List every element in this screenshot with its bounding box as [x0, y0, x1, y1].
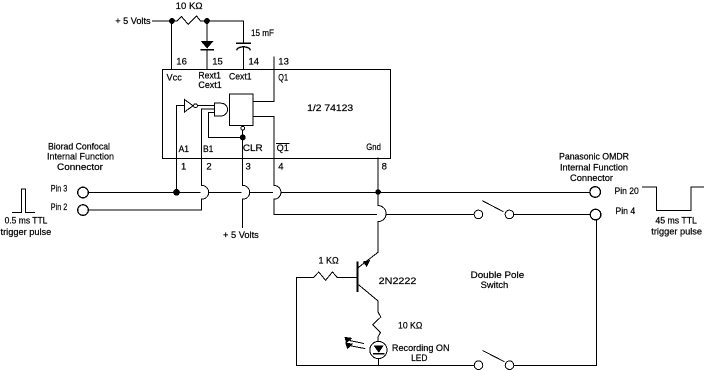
svg-text:Q1: Q1	[278, 72, 288, 83]
svg-text:8: 8	[382, 161, 387, 172]
wire pin3 net segment b	[210, 191, 242, 193]
svg-text:trigger pulse: trigger pulse	[651, 226, 702, 237]
svg-text:45 ms TTL: 45 ms TTL	[655, 215, 697, 226]
CLR bubble	[241, 126, 245, 130]
wire J2 to capacitor top	[207, 21, 243, 43]
wire pin2 net	[88, 209, 201, 211]
LED arrow 2	[352, 346, 365, 349]
svg-text:LED: LED	[411, 353, 427, 364]
svg-text:Vcc: Vcc	[167, 73, 183, 84]
LED D2	[370, 341, 387, 358]
hop Q1bar over pin3 wire	[274, 185, 281, 199]
wire +5V to junction	[153, 20, 173, 22]
svg-text:+ 5 Volts: + 5 Volts	[115, 16, 151, 27]
hop Gnd over lower wire	[378, 206, 386, 222]
svg-text:0.5 ms TTL: 0.5 ms TTL	[5, 215, 48, 226]
wire pin3 net segment d	[282, 191, 590, 193]
hop B1 over pin3 wire	[202, 185, 209, 199]
svg-text:Cext1: Cext1	[198, 80, 221, 91]
svg-text:CLR: CLR	[243, 143, 263, 154]
svg-text:10 KΩ: 10 KΩ	[398, 320, 422, 331]
wire Q1bar down to lower wire	[274, 199, 377, 214]
wire CLR to +5V	[242, 199, 244, 227]
wire B1 input to gate	[202, 108, 215, 110]
waveform 0.5 ms TTL pulse	[12, 189, 34, 212]
wire inverter out	[197, 105, 214, 107]
wire pin 13 stub	[273, 57, 275, 69]
svg-text:Internal Function: Internal Function	[560, 162, 628, 173]
wire CLR feedback	[209, 113, 243, 138]
svg-text:Q1: Q1	[277, 143, 289, 154]
wire pin3 net segment c	[251, 191, 273, 193]
svg-text:1 KΩ: 1 KΩ	[319, 256, 339, 267]
svg-text:14: 14	[249, 56, 260, 67]
svg-text:Pin 4: Pin 4	[615, 206, 635, 217]
pin 3 connector circle	[78, 187, 89, 198]
node junction A1	[173, 189, 180, 196]
waveform 45 ms TTL pulse	[643, 187, 704, 211]
svg-text:10 KΩ: 10 KΩ	[176, 1, 203, 12]
wire base left corner	[296, 277, 313, 365]
svg-text:3: 3	[246, 161, 251, 172]
diode D1	[201, 41, 214, 49]
svg-text:+ 5 Volts: + 5 Volts	[223, 230, 259, 241]
node junction J1	[169, 18, 175, 24]
LED arrow 1	[350, 341, 363, 344]
wire switch to pin4 vertical	[514, 220, 597, 366]
capacitor C1	[237, 42, 250, 44]
svg-text:Cext1: Cext1	[229, 72, 252, 83]
resistor R2	[314, 272, 338, 280]
switch S1b	[474, 361, 483, 370]
svg-text:Gnd: Gnd	[366, 142, 381, 153]
node junction J2	[204, 18, 210, 24]
svg-text:Pin 3: Pin 3	[51, 183, 67, 194]
wire pin3 net segment a	[88, 191, 200, 193]
resistor R3 10 KΩ	[373, 312, 381, 337]
wire A1 internal	[177, 106, 185, 193]
svg-text:1: 1	[181, 161, 186, 172]
wire diode cathode pin 15	[206, 50, 208, 70]
pin 4 connector circle	[590, 209, 601, 220]
hop CLR over pin3 wire	[243, 185, 250, 199]
wire base to transistor	[337, 276, 357, 278]
svg-text:16: 16	[176, 56, 187, 67]
svg-text:15 mF: 15 mF	[251, 28, 274, 39]
wire Gnd down	[377, 192, 379, 206]
node junction Gnd	[375, 189, 381, 195]
svg-text:Internal Function: Internal Function	[47, 152, 114, 163]
svg-text:B1: B1	[203, 144, 213, 155]
wire CLR internal	[242, 138, 244, 158]
svg-text:1/2 74123: 1/2 74123	[307, 103, 353, 114]
wire resistor to LED	[377, 337, 379, 342]
wire lower net to switch	[387, 213, 475, 215]
wire pin 1 stub	[176, 158, 178, 192]
svg-text:4: 4	[278, 161, 283, 172]
pin 2 connector circle	[78, 205, 89, 216]
wire Gnd to transistor	[377, 222, 379, 253]
junction dot CLR	[242, 130, 244, 138]
svg-text:Connector: Connector	[57, 162, 103, 173]
svg-text:Biorad Confocal: Biorad Confocal	[48, 141, 110, 152]
wire Gnd internal stub	[377, 158, 379, 192]
one-shot box	[229, 94, 253, 126]
wire diode anode	[206, 21, 208, 41]
inverter U1A	[185, 100, 194, 112]
wire Q1bar output to pin 4	[253, 117, 274, 159]
wire capacitor to pin 14	[242, 47, 244, 70]
transistor Q1 2N2222	[357, 262, 359, 290]
svg-text:2: 2	[206, 161, 211, 172]
wire switch to pin4	[514, 213, 591, 215]
switch S1a	[474, 210, 483, 219]
pin 20 connector circle	[590, 187, 601, 198]
svg-text:trigger pulse: trigger pulse	[1, 227, 52, 238]
IC U1 1/2 74123 body	[162, 70, 390, 159]
AND gate	[214, 103, 227, 116]
wire emitter to resistor	[377, 301, 379, 312]
svg-text:15: 15	[212, 56, 223, 67]
wire Q1 output to pin 13	[253, 70, 274, 102]
wire B1 to pin2 net	[201, 199, 203, 210]
wire bottom net	[296, 364, 474, 366]
wire pin 3 stub	[242, 158, 244, 185]
svg-text:Panasonic OMDR: Panasonic OMDR	[559, 151, 629, 162]
wire Vcc pin 16	[171, 21, 173, 70]
wire LED to bottom	[377, 359, 379, 366]
wire B1 internal	[201, 109, 203, 158]
resistor R1	[172, 16, 207, 24]
svg-text:Pin 20: Pin 20	[615, 186, 639, 197]
svg-text:13: 13	[278, 56, 289, 67]
svg-text:2N2222: 2N2222	[379, 276, 417, 287]
wire pin 2 stub	[201, 158, 203, 185]
svg-text:Connector: Connector	[570, 173, 613, 184]
svg-text:Switch: Switch	[481, 280, 509, 291]
svg-text:A1: A1	[179, 144, 189, 155]
wire pin 4 stub	[273, 158, 275, 185]
svg-text:Pin 2: Pin 2	[51, 202, 67, 213]
